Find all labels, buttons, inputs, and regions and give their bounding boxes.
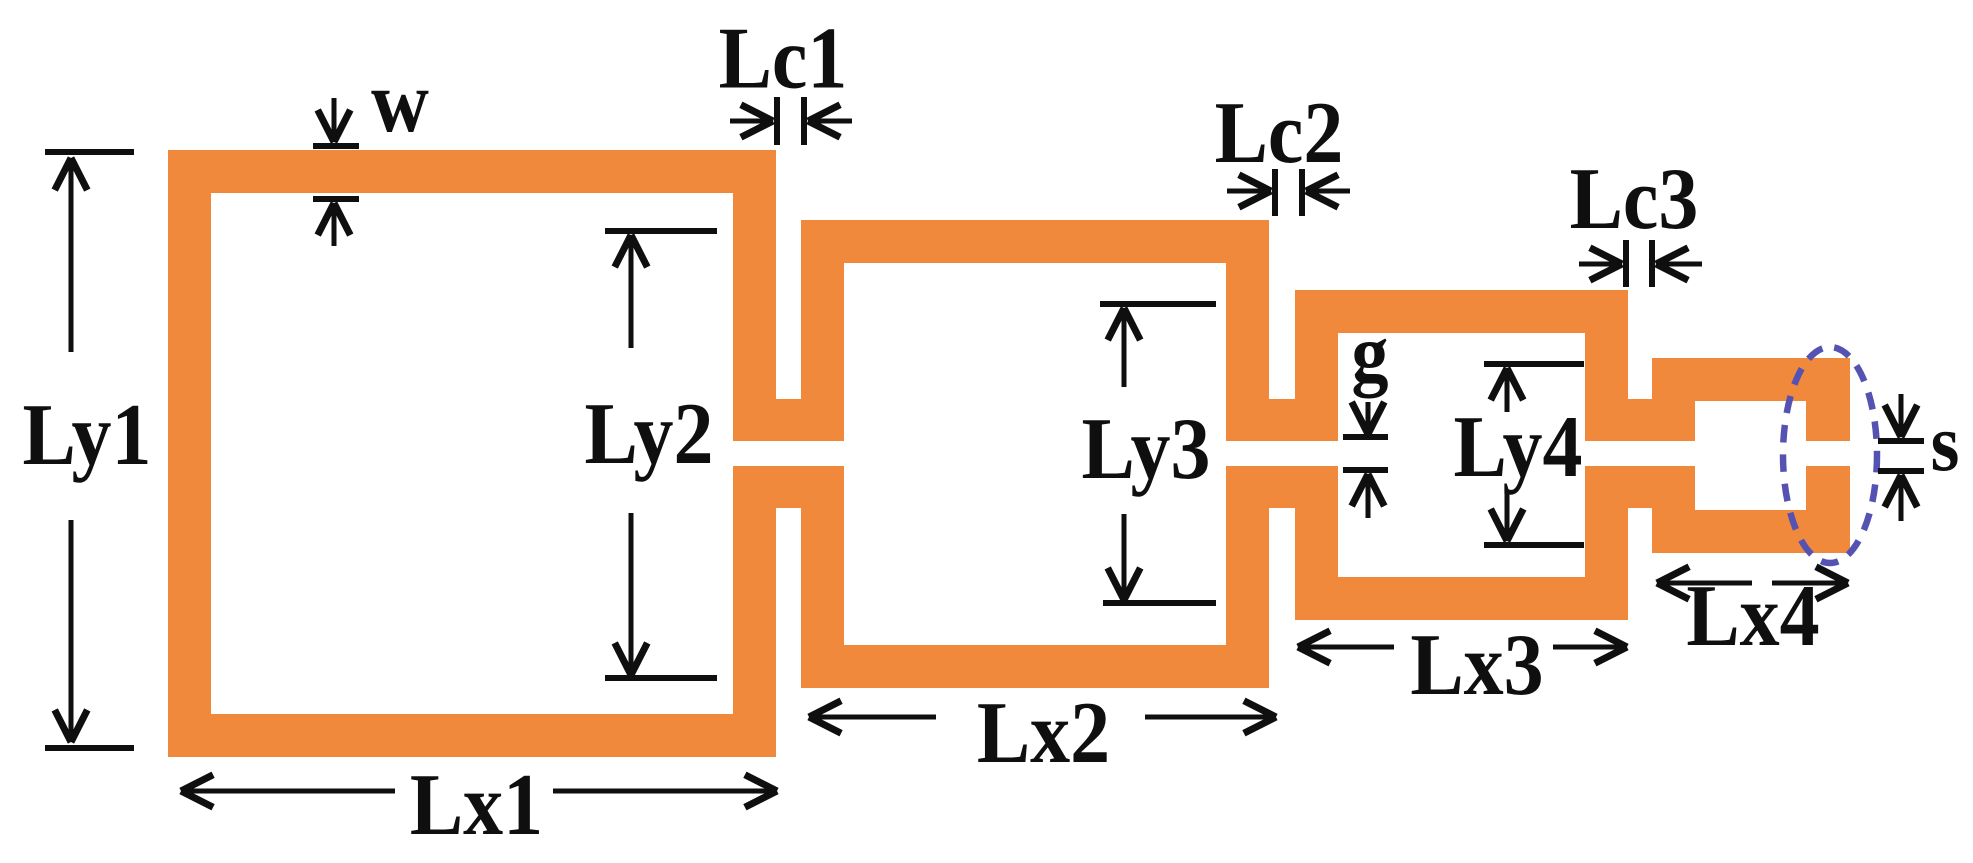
svg-text:s: s [1931, 398, 1960, 488]
svg-text:Lc1: Lc1 [719, 10, 848, 107]
svg-text:Lx2: Lx2 [977, 684, 1110, 781]
svg-text:Ly3: Ly3 [1082, 400, 1211, 497]
svg-text:Ly4: Ly4 [1454, 398, 1583, 495]
svg-text:Lx1: Lx1 [410, 756, 543, 853]
svg-text:Ly2: Ly2 [585, 385, 714, 482]
svg-text:Lx4: Lx4 [1686, 567, 1819, 664]
svg-text:g: g [1352, 309, 1389, 399]
svg-text:Lc2: Lc2 [1215, 84, 1344, 181]
svg-text:Lc3: Lc3 [1570, 150, 1699, 247]
svg-text:Ly1: Ly1 [23, 386, 152, 483]
svg-text:Lx3: Lx3 [1410, 616, 1543, 713]
svg-text:w: w [371, 53, 429, 150]
